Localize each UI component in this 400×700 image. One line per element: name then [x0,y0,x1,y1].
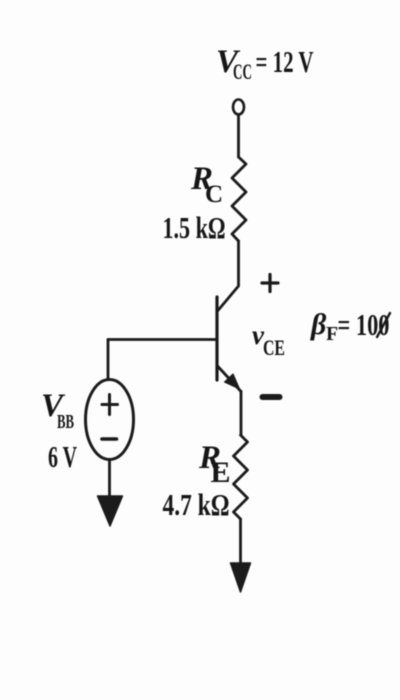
slash on last zero of beta value [377,313,390,337]
svg-text:6 V: 6 V [48,439,77,474]
svg-text:C: C [205,181,223,208]
source VBB circle [86,380,134,460]
label vCE [252,320,285,360]
svg-text:F: F [326,323,338,345]
svg-text:1.5 kΩ: 1.5 kΩ [163,210,226,245]
source VBB plus [102,395,118,415]
wire RC to collector [218,241,239,311]
svg-text:CE: CE [263,335,285,360]
wire VCC to RC [237,115,240,158]
wire emitter to RE [240,392,243,436]
svg-text:= 12 V: = 12 V [256,44,314,79]
transistor Q1 emitter arrow [225,374,240,389]
svg-text:E: E [211,456,231,489]
transistor Q1 base bar [215,297,218,380]
svg-text:β: β [310,308,327,341]
source VBB minus [102,437,117,441]
label RE [198,440,231,489]
label betaF = 100 [310,307,390,345]
wire base [108,338,217,341]
label RC [190,161,223,208]
wire RE to ground [239,519,242,565]
svg-text:CC: CC [233,59,252,84]
polarity plus vCE [262,275,278,292]
wire VBB top [107,340,110,380]
wire VBB to ground [108,460,111,499]
transistor Q1 emitter [218,366,242,392]
resistor RC [232,157,246,241]
polarity minus vCE [263,394,280,400]
svg-text:4.7 kΩ: 4.7 kΩ [163,487,230,522]
ground arrow bottom [231,563,251,592]
node VCC terminal [233,100,244,115]
svg-text:= 100: = 100 [338,307,390,342]
label VBB [41,388,74,433]
label VCC = 12 V [216,44,314,84]
svg-text:BB: BB [57,411,74,433]
resistor RE [234,435,248,519]
ground arrow left [98,496,123,526]
